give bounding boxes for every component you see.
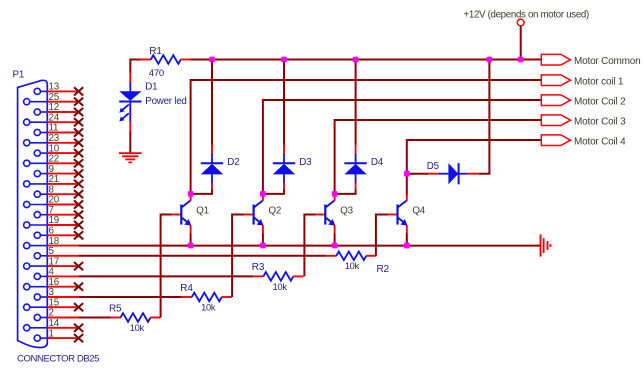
svg-text:10k: 10k	[130, 323, 145, 333]
svg-text:1: 1	[49, 328, 54, 339]
wire R3 to Q3 base	[304, 215, 315, 277]
wire pin 3 to R4	[79, 296, 182, 298]
wire R1 left corner down to D1	[130, 60, 141, 84]
output port Motor Coil 2	[541, 95, 626, 108]
wire pin 18 emitter bus	[79, 245, 541, 247]
svg-text:D2: D2	[227, 157, 239, 168]
P1 pin 24	[24, 112, 84, 126]
P1 pin 11	[34, 123, 83, 137]
wire motor coil 2 line with corner to Q2 collector	[263, 99, 541, 195]
junction Q1 collector	[188, 191, 194, 197]
svg-text:Motor Coil 3: Motor Coil 3	[574, 116, 626, 127]
resistor R4 10k	[180, 283, 232, 313]
junction Q2 collector	[260, 191, 266, 197]
wire R2 to Q4 base	[376, 215, 388, 256]
junction D4-common	[353, 57, 359, 63]
resistor R2 10k	[326, 252, 389, 275]
svg-text:10k: 10k	[273, 282, 288, 292]
ground symbol right (emitter bus)	[541, 234, 551, 256]
wire motor coil 1 line with corner to Q1 collector	[191, 79, 542, 195]
diode D5	[407, 161, 480, 185]
output port Motor Coil 4	[541, 135, 626, 148]
svg-text:10k: 10k	[345, 261, 360, 271]
transistor Q4	[388, 194, 426, 234]
output port Motor coil 1	[541, 75, 624, 88]
wire Q4 emitter to bus	[406, 233, 408, 245]
diode D4	[344, 60, 383, 191]
svg-text:R1: R1	[149, 46, 162, 57]
P1 pin 23	[24, 133, 84, 147]
svg-text:Q1: Q1	[196, 206, 209, 217]
wire R5 to Q1 base	[161, 215, 172, 318]
wire D3 anode to Q2 collector node	[263, 190, 284, 194]
transistor Q1	[171, 194, 209, 234]
wire Q3 emitter to bus	[334, 233, 336, 245]
P1 pin 12	[34, 102, 83, 116]
wire D2 anode to Q1 collector node	[191, 190, 212, 194]
diode D2	[201, 60, 240, 191]
svg-text:R5: R5	[109, 303, 122, 314]
P1 pin 17	[24, 256, 84, 270]
P1 pin 3	[34, 287, 78, 300]
wire motor coil 4 line with corner to Q4 collector	[407, 139, 542, 195]
wire D5 cathode up to motor common bus	[479, 60, 489, 174]
P1 pin 6	[34, 226, 83, 240]
P1 pin 1	[34, 328, 83, 342]
P1 pin 15	[24, 297, 84, 311]
P1 pin 7	[34, 205, 83, 219]
junction Q1 emitter	[188, 243, 194, 249]
wire pin 4 to R3	[79, 275, 254, 277]
junction D3-common	[281, 57, 287, 63]
connector name CONNECTOR DB25	[17, 354, 99, 365]
P1 pin 5	[34, 246, 78, 259]
svg-text:R2: R2	[377, 264, 390, 275]
svg-text:CONNECTOR DB25: CONNECTOR DB25	[17, 354, 99, 365]
output port Motor Common	[541, 54, 640, 67]
svg-text:Q4: Q4	[412, 206, 425, 217]
resistor R5 10k	[109, 303, 161, 333]
wire Q2 emitter to bus	[262, 233, 264, 245]
svg-text:Power led: Power led	[145, 96, 186, 107]
svg-text:P1: P1	[13, 70, 25, 81]
output port Motor Coil 3	[541, 115, 626, 128]
svg-text:Motor Coil 2: Motor Coil 2	[574, 96, 626, 107]
junction Q3 collector	[332, 191, 338, 197]
transistor Q3	[315, 194, 353, 234]
P1 pin 13	[34, 82, 83, 96]
junction D5-common	[487, 57, 493, 63]
wire R4 to Q2 base	[232, 215, 244, 298]
P1 pin 19	[24, 215, 84, 229]
LED D1 Power led	[119, 82, 186, 122]
transistor Q2	[244, 194, 282, 234]
junction D2-common	[209, 57, 215, 63]
P1 pin 18	[24, 236, 79, 249]
svg-text:470: 470	[149, 68, 164, 79]
wire pin 2 to R5	[79, 317, 111, 319]
svg-text:+12V (depends on motor used): +12V (depends on motor used)	[464, 10, 590, 21]
resistor R1 470	[141, 46, 191, 79]
wire +12V to motor common bus	[520, 26, 522, 60]
diode D3	[273, 60, 312, 191]
svg-text:Motor coil 1: Motor coil 1	[574, 76, 624, 87]
P1 pin 2	[34, 308, 78, 321]
junction +12V-common	[518, 57, 524, 63]
svg-text:R4: R4	[180, 283, 193, 294]
P1 pin 20	[24, 195, 84, 209]
wire Q1 emitter to bus	[190, 233, 192, 245]
junction Q4 emitter	[404, 243, 410, 249]
P1 pin 21	[24, 174, 84, 188]
P1 pin 25	[24, 92, 84, 106]
+12V supply circle and label	[464, 10, 590, 26]
wire motor coil 3 line with corner to Q3 collector	[335, 119, 542, 195]
wire D4 anode to Q3 collector node	[335, 190, 356, 194]
svg-text:D5: D5	[427, 161, 440, 172]
wire pin 5 to R2	[79, 255, 327, 257]
resistor R3 10k	[252, 262, 303, 292]
svg-text:Motor Coil 4: Motor Coil 4	[574, 136, 626, 147]
motor common bus wire	[190, 59, 541, 61]
P1 pin 10	[34, 143, 83, 157]
junction Q2 emitter	[260, 243, 266, 249]
P1 pin 14	[24, 318, 84, 332]
ground (earth) under D1	[119, 153, 142, 162]
junction Q4 collector D5	[404, 171, 410, 177]
svg-text:D1: D1	[145, 82, 157, 93]
P1 pin 4	[34, 267, 78, 280]
connector P1 body	[18, 80, 48, 347]
junction Q3 emitter	[332, 243, 338, 249]
P1 pin 16	[24, 277, 84, 291]
svg-text:D3: D3	[299, 157, 312, 168]
connector P1 reference label	[13, 70, 25, 81]
P1 pin 22	[24, 154, 84, 168]
svg-text:10k: 10k	[201, 302, 216, 312]
svg-text:D4: D4	[371, 157, 384, 168]
P1 pin 8	[34, 184, 83, 198]
svg-text:Q3: Q3	[340, 206, 353, 217]
wire D1 cathode to ground	[129, 121, 131, 152]
svg-text:R3: R3	[252, 262, 265, 273]
P1 pin 9	[34, 164, 83, 178]
svg-text:Motor Common: Motor Common	[574, 56, 641, 67]
svg-text:Q2: Q2	[269, 206, 282, 217]
